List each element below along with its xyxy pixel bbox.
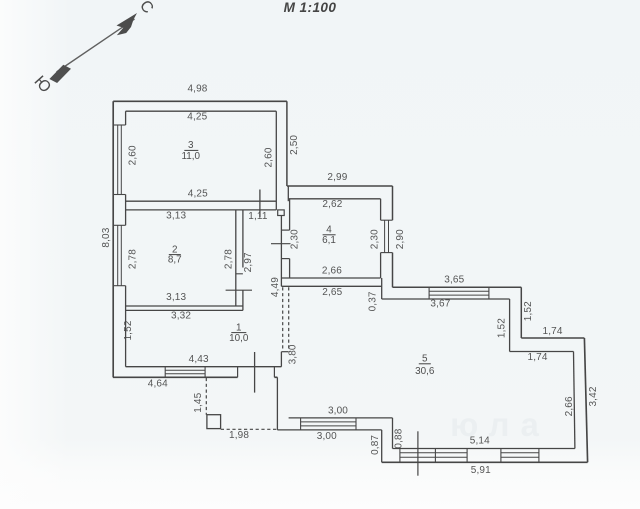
window W1 cap bottom: [113, 194, 125, 196]
svg-text:2,60: 2,60: [128, 145, 139, 165]
room 5 label: [415, 354, 435, 378]
dim 0,37: [368, 291, 379, 311]
dim 1,52 step outer: [523, 301, 534, 321]
wall: 0.87 stub: [381, 430, 383, 462]
door leaf: room2: [226, 289, 252, 291]
dim 2,78 left: [128, 249, 139, 269]
wall: corridor post: [278, 210, 285, 216]
wall: 3.00 upper: [289, 417, 393, 419]
svg-text:4,49: 4,49: [270, 277, 281, 297]
svg-text:8,03: 8,03: [101, 227, 112, 247]
wall: hallway step up: [280, 352, 282, 367]
window W2 cap top: [113, 224, 125, 226]
compass letter Yu (south): [30, 73, 53, 96]
jamb: room1 door left: [237, 367, 239, 378]
svg-text:4,98: 4,98: [187, 83, 207, 94]
dim 1,52 room1: [123, 320, 134, 340]
svg-text:10,0: 10,0: [229, 333, 249, 344]
svg-text:4,64: 4,64: [148, 378, 168, 389]
wall: right inner: [574, 352, 575, 449]
window W5 cap right: [488, 287, 490, 299]
svg-text:11,0: 11,0: [182, 151, 201, 162]
svg-text:1,52: 1,52: [523, 301, 534, 321]
wall: room4 top inner: [288, 198, 380, 200]
svg-text:6,1: 6,1: [322, 235, 336, 246]
svg-text:2,65: 2,65: [322, 287, 342, 298]
window W7 pane b: [400, 456, 467, 458]
window W2 cap bottom: [113, 285, 125, 287]
window W8 cap right: [538, 449, 540, 463]
wall: room4 right inner a: [380, 199, 382, 220]
dim 8,03: [101, 227, 112, 247]
window W2 pane b: [120, 225, 122, 285]
wall: room3 bottom lower: [244, 209, 276, 211]
dim 2,60 right: [263, 147, 274, 167]
window W7 cap a: [399, 449, 401, 463]
window W7 cap c: [466, 449, 468, 463]
compass arrowhead: [117, 13, 138, 35]
svg-text:3,80: 3,80: [288, 344, 299, 364]
svg-text:0,37: 0,37: [368, 291, 379, 311]
window W6 cap left: [300, 418, 302, 430]
window W8 cap left: [500, 449, 502, 463]
svg-text:5,14: 5,14: [470, 435, 490, 446]
wall: 3.65 upper: [393, 286, 522, 288]
window W7 cap b: [434, 449, 436, 463]
window W6 pane a: [301, 421, 356, 423]
wall: room4 top outer: [287, 185, 393, 187]
wall: room4 right outer a: [392, 186, 394, 220]
wall: 3.65 lower: [382, 298, 510, 300]
tick: room4 left dim: [271, 243, 291, 245]
window W3 pane a: [165, 369, 205, 371]
svg-text:1: 1: [236, 322, 242, 333]
window W4 pane b: [388, 220, 390, 252]
svg-text:2,90: 2,90: [395, 229, 406, 249]
svg-text:3,13: 3,13: [166, 210, 186, 221]
wall: 1.74 upper: [521, 337, 584, 339]
window W3 cap left: [164, 367, 166, 378]
wall: left inner seg a: [125, 111, 127, 125]
window W3 pane b: [165, 373, 205, 375]
wall: 1.74 lower: [510, 351, 574, 353]
wall: room1 bottom inner: [126, 366, 282, 368]
compass tail feather: [49, 65, 71, 83]
svg-text:3,13: 3,13: [166, 292, 186, 303]
dashed: open boundary a: [282, 287, 284, 350]
dim 3,42: [588, 386, 599, 406]
room 1 label: [229, 322, 249, 344]
svg-text:4,25: 4,25: [188, 188, 208, 199]
wall: room4 right outer b: [392, 253, 394, 288]
svg-text:2,66: 2,66: [564, 396, 575, 416]
tick: bottom wall dim: [417, 431, 419, 475]
svg-text:0,87: 0,87: [370, 435, 381, 455]
window W8 pane b: [501, 456, 539, 458]
wall: room1 bottom outer a: [113, 376, 238, 378]
scan left edge fade: [0, 0, 70, 509]
wall: 0.37 stub: [381, 278, 383, 299]
window W6 cap right: [355, 418, 357, 430]
dim 3,80: [288, 344, 299, 364]
dashed: open boundary b: [288, 287, 290, 348]
wall: room4 right inner b: [380, 253, 382, 278]
svg-text:2,66: 2,66: [322, 265, 342, 276]
window W8 pane a: [501, 452, 539, 454]
dim 1,52 step inner: [496, 318, 507, 338]
wall: room3 right inner: [275, 111, 277, 210]
svg-text:2,62: 2,62: [322, 199, 342, 210]
wall: room2 bottom lower: [126, 309, 243, 311]
svg-text:3,00: 3,00: [328, 406, 348, 417]
svg-text:2,60: 2,60: [263, 147, 274, 167]
svg-text:2,30: 2,30: [370, 229, 381, 249]
dim 1,45: [193, 392, 204, 412]
wall: room3 top inner: [126, 110, 277, 112]
jamb: room1 door right: [273, 367, 275, 378]
stove square: [207, 415, 221, 429]
svg-text:1,52: 1,52: [123, 320, 134, 340]
dim 2,78 right: [224, 249, 235, 269]
wall: left inner seg c: [125, 286, 127, 367]
svg-text:2,78: 2,78: [224, 249, 235, 269]
window W6 pane b: [301, 425, 356, 427]
svg-text:4: 4: [326, 224, 332, 235]
door leaf: room3: [259, 190, 261, 218]
dim 2,90: [395, 229, 406, 249]
room 2 label: [168, 244, 182, 265]
dim 2,66 right: [564, 396, 575, 416]
window W1 cap top: [113, 124, 125, 126]
wall: right outer: [584, 338, 587, 462]
svg-text:2,97: 2,97: [243, 252, 254, 272]
svg-text:С: С: [136, 0, 157, 17]
wall: hallway right lower: [276, 377, 278, 430]
dim 2,97: [243, 252, 254, 272]
door leaf: room1 entry: [254, 352, 256, 393]
svg-text:0,88: 0,88: [394, 428, 405, 448]
cap: room4 door bottom: [281, 258, 289, 260]
svg-text:2,78: 2,78: [128, 249, 139, 269]
room 3 label: [182, 140, 201, 162]
svg-text:2,99: 2,99: [327, 172, 347, 183]
wall: room4 bottom outer: [281, 285, 381, 287]
svg-text:3,65: 3,65: [444, 275, 464, 286]
wall: room1 bottom outer b: [274, 376, 277, 378]
wall: room2 top: [126, 209, 244, 211]
dim 4,49: [270, 277, 281, 297]
wall: 0.88 stub: [392, 418, 394, 449]
wall: corridor right: [280, 216, 282, 287]
wall: left inner seg b: [125, 195, 127, 226]
wall: left outer: [112, 101, 114, 377]
wall: room4 left top stub: [287, 186, 289, 201]
window W2 pane a: [117, 225, 119, 285]
dim 0,87: [370, 435, 381, 455]
svg-text:1,98: 1,98: [229, 430, 249, 441]
svg-text:30,6: 30,6: [415, 366, 435, 377]
svg-text:1,74: 1,74: [543, 326, 563, 337]
wall: bottom inner: [393, 448, 575, 450]
dim 2,30 right: [370, 229, 381, 249]
svg-text:2,30: 2,30: [290, 229, 301, 249]
wall: room3 right outer: [286, 101, 288, 186]
wall: room4 bottom inner: [281, 277, 380, 279]
svg-text:1,45: 1,45: [193, 392, 204, 412]
window W5 pane b: [429, 294, 489, 296]
window W1 pane a: [117, 125, 119, 195]
dim 0,88: [394, 428, 405, 448]
wall: bottom outer: [382, 461, 588, 463]
compass arrow north: [57, 19, 135, 72]
svg-text:4,43: 4,43: [189, 354, 209, 365]
wall: step outer: [520, 287, 522, 338]
dim 2,30 left: [290, 229, 301, 249]
svg-text:3: 3: [188, 140, 194, 151]
svg-text:4,25: 4,25: [187, 111, 207, 122]
tick: room2 door jamb: [236, 273, 243, 275]
wall: room4 left inner b: [289, 259, 291, 278]
room 4 label: [322, 224, 336, 246]
svg-text:3,00: 3,00: [317, 431, 337, 442]
svg-text:5,91: 5,91: [471, 465, 491, 476]
window W1 pane b: [120, 125, 122, 195]
dashed: stove tie vertical: [205, 378, 207, 415]
compass letter C (north): [136, 0, 157, 17]
wall: room3 top outer: [113, 100, 287, 102]
window W3 cap right: [204, 367, 206, 378]
svg-text:3,32: 3,32: [171, 311, 191, 322]
wall: 3.00 lower: [277, 429, 381, 431]
dashed: stove tie horizontal: [221, 428, 277, 430]
svg-text:1,52: 1,52: [496, 318, 507, 338]
svg-text:3,67: 3,67: [430, 299, 450, 310]
window W7 pane a: [400, 452, 467, 454]
window W4 cap bottom: [381, 252, 393, 254]
wall: step inner: [509, 299, 511, 352]
svg-text:5: 5: [422, 354, 428, 365]
wall: hallway cap: [281, 351, 288, 353]
svg-text:8,7: 8,7: [168, 254, 182, 265]
wall: room4 left inner a: [289, 199, 291, 230]
cap: room4 door top: [281, 229, 289, 231]
svg-text:2,50: 2,50: [289, 135, 300, 155]
svg-text:1,11: 1,11: [248, 211, 268, 222]
wall: room2 right outer b: [242, 290, 244, 310]
svg-text:М 1:100: М 1:100: [284, 0, 337, 15]
wall: room2 bottom upper: [126, 305, 243, 307]
window W5 pane a: [429, 290, 489, 292]
svg-text:3,42: 3,42: [588, 386, 599, 406]
wall: room2 right inner: [235, 210, 237, 306]
dim 2,60 left: [128, 145, 139, 165]
svg-text:юла: юла: [450, 406, 550, 443]
window W4 cap top: [381, 219, 393, 221]
wall: room2 right outer a: [242, 210, 244, 268]
window W5 cap left: [428, 287, 430, 299]
window W4 pane a: [384, 220, 386, 252]
wall: room3 bottom upper: [126, 200, 277, 202]
dim 2,50: [289, 135, 300, 155]
svg-text:1,74: 1,74: [528, 352, 548, 363]
